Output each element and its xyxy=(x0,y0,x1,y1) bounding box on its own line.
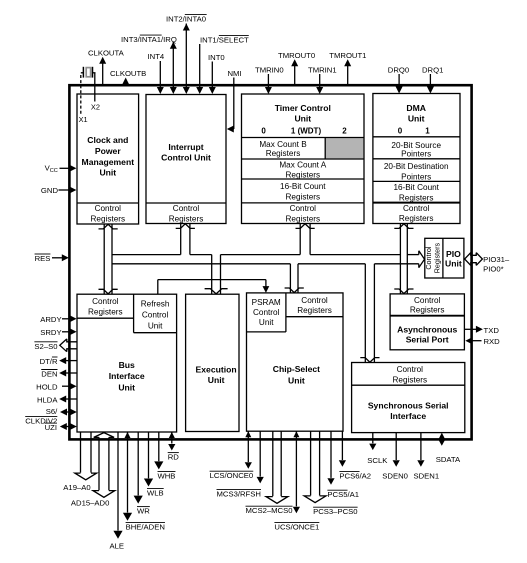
svg-text:INT2/INTA0: INT2/INTA0 xyxy=(166,15,206,24)
svg-text:Execution: Execution xyxy=(196,364,237,374)
svg-text:Control: Control xyxy=(301,296,328,305)
svg-text:DMA: DMA xyxy=(406,103,426,113)
svg-text:PSRAM: PSRAM xyxy=(252,298,281,307)
svg-text:PIO: PIO xyxy=(446,249,461,259)
svg-text:PCS5/A1: PCS5/A1 xyxy=(327,490,359,499)
svg-text:Control: Control xyxy=(95,204,122,213)
svg-text:Clock and: Clock and xyxy=(87,135,128,145)
svg-text:HLDA: HLDA xyxy=(37,396,58,405)
svg-text:CLKOUTB: CLKOUTB xyxy=(110,69,146,78)
svg-text:Registers: Registers xyxy=(286,192,321,201)
svg-text:Refresh: Refresh xyxy=(141,299,170,308)
svg-text:Interface: Interface xyxy=(390,411,426,421)
svg-text:Registers: Registers xyxy=(91,214,126,223)
svg-text:TMROUT0: TMROUT0 xyxy=(278,51,315,60)
svg-text:Unit: Unit xyxy=(288,376,305,386)
svg-text:Pointers: Pointers xyxy=(401,149,431,158)
svg-text:ALE: ALE xyxy=(110,542,125,551)
svg-text:HOLD: HOLD xyxy=(36,383,58,392)
svg-text:RXD: RXD xyxy=(484,337,501,346)
svg-text:PIO0*: PIO0* xyxy=(483,265,504,274)
svg-text:TXD: TXD xyxy=(484,326,500,335)
svg-text:WLB: WLB xyxy=(147,489,164,498)
svg-text:RES: RES xyxy=(35,254,51,263)
svg-text:2: 2 xyxy=(342,127,347,136)
svg-text:MCS3/RFSH: MCS3/RFSH xyxy=(217,490,261,499)
svg-text:Control: Control xyxy=(142,311,169,320)
svg-text:INT1/SELECT: INT1/SELECT xyxy=(200,36,249,45)
svg-text:Interface: Interface xyxy=(109,371,145,381)
svg-text:Bus: Bus xyxy=(119,360,135,370)
svg-text:Unit: Unit xyxy=(259,318,274,327)
svg-text:Registers: Registers xyxy=(169,214,204,223)
svg-text:Registers: Registers xyxy=(399,193,434,202)
svg-text:Unit: Unit xyxy=(118,383,135,393)
svg-text:Management: Management xyxy=(82,157,135,167)
svg-text:MCS2–MCS0: MCS2–MCS0 xyxy=(246,506,293,515)
svg-text:Control: Control xyxy=(403,204,430,213)
svg-text:UCS/ONCE1: UCS/ONCE1 xyxy=(274,523,319,532)
svg-text:DRQ0: DRQ0 xyxy=(388,66,409,75)
svg-text:Unit: Unit xyxy=(99,168,116,178)
svg-text:0: 0 xyxy=(398,127,403,136)
svg-text:SDATA: SDATA xyxy=(436,455,461,464)
svg-text:TMRIN1: TMRIN1 xyxy=(308,66,337,75)
svg-text:TMROUT1: TMROUT1 xyxy=(329,51,366,60)
svg-text:X2: X2 xyxy=(91,103,100,112)
svg-text:WR: WR xyxy=(137,507,150,516)
svg-text:Control: Control xyxy=(92,297,119,306)
svg-text:Registers: Registers xyxy=(433,243,442,274)
svg-text:Power: Power xyxy=(95,146,121,156)
svg-text:A19–A0: A19–A0 xyxy=(63,483,90,492)
svg-text:Control: Control xyxy=(173,204,200,213)
svg-text:INT3/INTA1/IRQ: INT3/INTA1/IRQ xyxy=(121,35,177,44)
svg-text:Control: Control xyxy=(397,365,424,374)
svg-text:PCS3–PCS0: PCS3–PCS0 xyxy=(313,507,357,516)
svg-text:LCS/ONCE0: LCS/ONCE0 xyxy=(210,471,254,480)
svg-text:Unit: Unit xyxy=(148,322,163,331)
svg-text:X1: X1 xyxy=(79,115,88,124)
svg-text:DEN: DEN xyxy=(41,370,57,379)
svg-text:Registers: Registers xyxy=(266,149,301,158)
svg-text:1: 1 xyxy=(425,127,430,136)
svg-text:Chip-Select: Chip-Select xyxy=(273,364,320,374)
svg-text:Unit: Unit xyxy=(408,113,425,123)
svg-text:Pointers: Pointers xyxy=(401,172,431,181)
svg-text:Registers: Registers xyxy=(286,170,321,179)
svg-text:Synchronous Serial: Synchronous Serial xyxy=(368,401,449,411)
svg-text:Registers: Registers xyxy=(393,376,428,385)
svg-text:BHE/ADEN: BHE/ADEN xyxy=(126,523,165,532)
svg-text:Max Count B: Max Count B xyxy=(259,140,307,149)
svg-text:SDEN1: SDEN1 xyxy=(414,472,440,481)
svg-text:ARDY: ARDY xyxy=(40,315,61,324)
svg-text:Registers: Registers xyxy=(399,214,434,223)
svg-text:INT4: INT4 xyxy=(148,52,165,61)
svg-text:0: 0 xyxy=(261,127,266,136)
svg-text:NMI: NMI xyxy=(228,69,242,78)
svg-text:SCLK: SCLK xyxy=(367,456,388,465)
svg-text:AD15–AD0: AD15–AD0 xyxy=(71,499,109,508)
svg-text:TMRIN0: TMRIN0 xyxy=(255,66,284,75)
svg-text:Registers: Registers xyxy=(286,214,321,223)
svg-text:DRQ1: DRQ1 xyxy=(422,66,443,75)
svg-text:Max Count A: Max Count A xyxy=(279,160,326,169)
svg-text:Unit: Unit xyxy=(445,259,462,269)
svg-text:GND: GND xyxy=(41,186,59,195)
svg-text:PIO31–: PIO31– xyxy=(483,255,510,264)
svg-text:Unit: Unit xyxy=(294,113,311,123)
svg-text:SDEN0: SDEN0 xyxy=(382,472,408,481)
svg-text:UZI: UZI xyxy=(45,423,57,432)
svg-text:Control: Control xyxy=(290,204,317,213)
svg-text:Interrupt: Interrupt xyxy=(168,142,203,152)
svg-text:Unit: Unit xyxy=(208,375,225,385)
svg-text:WHB: WHB xyxy=(158,472,176,481)
svg-text:INT0: INT0 xyxy=(208,53,225,62)
svg-text:S6/: S6/ xyxy=(46,407,58,416)
svg-text:Control: Control xyxy=(414,296,441,305)
svg-text:Registers: Registers xyxy=(88,307,123,316)
svg-text:RD: RD xyxy=(168,453,180,462)
svg-text:Asynchronous: Asynchronous xyxy=(397,325,457,335)
svg-text:S2–S0: S2–S0 xyxy=(34,342,57,351)
svg-text:16-Bit Count: 16-Bit Count xyxy=(393,183,439,192)
svg-text:20-Bit Destination: 20-Bit Destination xyxy=(384,162,449,171)
svg-text:PCS6/A2: PCS6/A2 xyxy=(339,472,371,481)
svg-text:Control: Control xyxy=(253,308,280,317)
svg-text:Timer Control: Timer Control xyxy=(275,103,331,113)
svg-text:CLKOUTA: CLKOUTA xyxy=(88,49,125,58)
svg-text:16-Bit Count: 16-Bit Count xyxy=(280,182,326,191)
svg-text:SRDY: SRDY xyxy=(40,328,61,337)
svg-text:Control Unit: Control Unit xyxy=(161,152,211,162)
svg-text:Registers: Registers xyxy=(297,306,332,315)
svg-text:1 (WDT): 1 (WDT) xyxy=(291,127,322,136)
svg-text:Serial Port: Serial Port xyxy=(406,335,449,345)
svg-text:Registers: Registers xyxy=(410,306,445,315)
svg-text:DT/R: DT/R xyxy=(40,357,58,366)
